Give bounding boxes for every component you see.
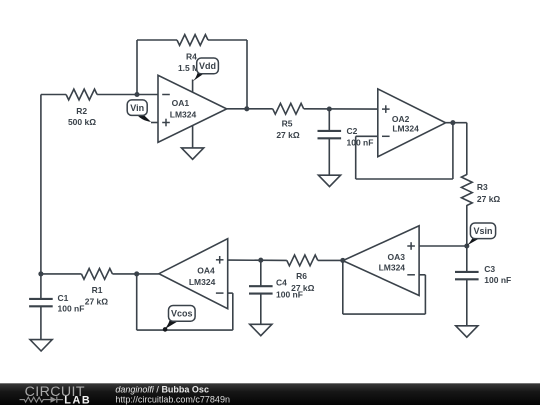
svg-text:LM324: LM324	[379, 263, 406, 273]
wire OA3 out to R6	[318, 259, 343, 261]
wire left rail	[40, 95, 42, 275]
resistor R4	[177, 35, 208, 73]
wire C4 down	[260, 294, 262, 325]
svg-text:C2: C2	[347, 126, 358, 136]
resistor R1	[81, 269, 112, 307]
wire R1 to rail	[41, 273, 82, 275]
node C2 junction	[327, 106, 332, 111]
resistor R6	[287, 255, 318, 293]
wire OA2 feedback up	[452, 123, 454, 179]
ground C1	[30, 340, 52, 351]
wire OA3 feedback bottom	[343, 313, 426, 315]
node Vsin flag	[466, 223, 495, 246]
wire OA2 to R3	[466, 123, 468, 175]
node OA1 out	[244, 106, 249, 111]
wire Vsin row	[419, 245, 467, 247]
capacitor C2	[318, 126, 374, 147]
svg-text:R5: R5	[282, 118, 293, 128]
resistor R2	[66, 89, 97, 127]
wire OA4 feedback bottom	[137, 329, 233, 331]
svg-text:Vsin: Vsin	[473, 226, 492, 236]
svg-text:R6: R6	[296, 271, 307, 281]
svg-text:100 nF: 100 nF	[347, 138, 374, 148]
footer url text	[115, 395, 230, 405]
wire OA1 feedback top left	[137, 39, 177, 41]
wire C1 down	[40, 306, 42, 339]
svg-text:27 kΩ: 27 kΩ	[85, 296, 109, 306]
node junction R2/feedback	[134, 92, 139, 97]
wire C2 up	[328, 109, 330, 131]
capacitor C4	[249, 278, 303, 300]
node Vcos flag	[163, 306, 195, 332]
wire OA4 feedback up	[136, 274, 138, 330]
svg-text:LM324: LM324	[392, 124, 419, 134]
wire OA4 feedback down	[232, 293, 234, 330]
wire OA1 out	[227, 108, 273, 110]
wire OA4 -in stub	[228, 292, 233, 294]
svg-text:Vin: Vin	[130, 103, 144, 113]
svg-text:R1: R1	[92, 285, 103, 295]
ground OA1	[182, 148, 204, 159]
wire OA2 -in stub	[356, 135, 378, 137]
node C1 junction	[38, 271, 43, 276]
wire R6 to OA4	[228, 259, 287, 261]
capacitor C1	[29, 293, 84, 314]
wire OA2 feedback bottom	[356, 178, 453, 180]
node Vdd flag	[192, 58, 218, 82]
svg-text:C4: C4	[276, 278, 287, 288]
wire OA1 +in stub	[151, 122, 158, 124]
svg-text:100 nF: 100 nF	[58, 304, 85, 314]
wire OA3 feedback down	[424, 275, 426, 314]
footer title text	[115, 385, 209, 395]
ground C3	[456, 326, 478, 337]
resistor R3	[461, 175, 500, 206]
wire C3 up	[466, 246, 468, 272]
svg-text:27 kΩ: 27 kΩ	[276, 130, 300, 140]
svg-text:OA3: OA3	[387, 252, 405, 262]
node OA3 out	[340, 258, 345, 263]
svg-text:LAB: LAB	[64, 394, 91, 405]
svg-text:500 kΩ: 500 kΩ	[68, 117, 96, 127]
footer bar background	[0, 383, 540, 405]
svg-text:C3: C3	[484, 264, 495, 274]
svg-text:27 kΩ: 27 kΩ	[477, 194, 501, 204]
node Vsin junction	[464, 243, 469, 248]
wire C1 up	[40, 274, 42, 299]
wire R5 to OA2	[304, 108, 378, 110]
svg-text:OA2: OA2	[392, 114, 410, 124]
svg-text:100 nF: 100 nF	[276, 290, 303, 300]
op-amp OA2	[378, 89, 446, 157]
op-amp OA1	[158, 75, 227, 142]
capacitor C3	[455, 264, 511, 285]
node OA2 out	[450, 120, 455, 125]
wire C3 down	[466, 279, 468, 326]
svg-text:Vdd: Vdd	[199, 61, 216, 71]
wire OA1 V+ stub	[192, 80, 194, 93]
wire C2 down	[328, 138, 330, 175]
wire OA1 feedback down	[246, 40, 248, 109]
resistor R5	[273, 103, 304, 139]
CircuitLab logo text CIRCUIT	[25, 384, 85, 400]
wire OA2 feedback down	[355, 136, 357, 179]
svg-text:R3: R3	[477, 182, 488, 192]
ground C2	[318, 175, 340, 186]
node OA4 feedback tap	[134, 271, 139, 276]
wire R3 to Vsin node	[466, 205, 468, 246]
wire OA1 feedback up	[136, 40, 138, 95]
op-amp OA4	[159, 239, 228, 309]
svg-text:OA4: OA4	[197, 266, 215, 276]
wire R2 row left	[41, 94, 66, 96]
wire OA4 out row	[112, 273, 158, 275]
wire C4 up	[260, 260, 262, 286]
wire OA1 feedback top right	[208, 39, 247, 41]
svg-text:100 nF: 100 nF	[484, 275, 511, 285]
wire OA1 V- stub	[192, 125, 194, 147]
wire OA2 out	[446, 122, 467, 124]
svg-text:C1: C1	[58, 293, 69, 303]
svg-text:http://circuitlab.com/c77849n: http://circuitlab.com/c77849n	[115, 395, 230, 405]
node Vin flag	[127, 100, 151, 122]
svg-text:LM324: LM324	[189, 277, 216, 287]
op-amp OA3	[343, 226, 419, 296]
svg-text:R4: R4	[186, 52, 197, 62]
svg-text:OA1: OA1	[172, 98, 190, 108]
ground C4	[250, 324, 272, 335]
svg-text:danginolfi / Bubba Osc: danginolfi / Bubba Osc	[115, 385, 209, 395]
CircuitLab logo text LAB	[64, 394, 91, 405]
svg-text:Vcos: Vcos	[171, 308, 193, 318]
node C4 junction	[258, 258, 263, 263]
svg-text:LM324: LM324	[170, 110, 197, 120]
svg-text:R2: R2	[76, 106, 87, 116]
wire OA3 -in stub	[419, 274, 425, 276]
CircuitLab logo resistor-diode symbol	[20, 397, 64, 403]
wire OA3 feedback up	[342, 260, 344, 314]
wire R2 row right	[97, 94, 158, 96]
